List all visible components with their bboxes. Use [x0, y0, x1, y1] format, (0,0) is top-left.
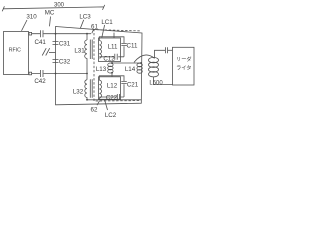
- svg-text:L12: L12: [107, 83, 118, 90]
- stub L12 bottom: [98, 98, 100, 100]
- stub L32 bottom to bottom wire: [86, 97, 88, 100]
- svg-text:L32: L32: [73, 89, 84, 96]
- leader MC: [50, 17, 51, 27]
- stub LC1 top to MC edge: [113, 33, 115, 38]
- wire L500 bottom: [154, 77, 173, 85]
- svg-text:LC3: LC3: [79, 14, 91, 21]
- leader LC3: [80, 20, 83, 28]
- capacitor C41: [41, 30, 44, 37]
- wire C22 row: [99, 96, 124, 98]
- inductor L12 secondary: [99, 80, 101, 98]
- svg-text:C41: C41: [35, 39, 47, 46]
- antenna coil L500: [149, 57, 159, 62]
- transformer L32 primary: [85, 80, 87, 98]
- junction dot W2/edge: [55, 73, 57, 75]
- stub L32 top from W2: [86, 74, 88, 80]
- svg-text:RFIC: RFIC: [9, 48, 21, 54]
- capacitor C21: [121, 82, 127, 84]
- core lines bottom transformer: [90, 79, 92, 98]
- svg-text:L13: L13: [96, 66, 107, 73]
- svg-text:C42: C42: [34, 78, 46, 85]
- wire L13 column: [111, 62, 113, 77]
- LC3 dashed box: [94, 30, 140, 101]
- reader/writer box: [173, 47, 195, 85]
- svg-text:LC1: LC1: [101, 19, 113, 26]
- stub L31 top to W1: [86, 34, 88, 40]
- svg-text:MC: MC: [45, 10, 55, 17]
- connector L31 bottom to W2: [86, 58, 88, 73]
- RFIC U310 box: [4, 32, 29, 75]
- ground: [42, 48, 50, 55]
- wire W2 bottom: [32, 73, 87, 75]
- svg-text:L500: L500: [149, 80, 163, 86]
- capacitor C500: [165, 47, 167, 53]
- capacitor C32 on MC left edge: [53, 59, 59, 62]
- svg-text:C31: C31: [59, 41, 71, 48]
- wire L12 top to C21: [99, 76, 124, 81]
- svg-text:LC2: LC2: [105, 112, 117, 119]
- wire antenna node up: [155, 50, 166, 58]
- wire L11 top to C11: [99, 37, 124, 43]
- LC2 box: [99, 77, 121, 100]
- capacitor C31 on MC left edge: [53, 42, 59, 45]
- svg-text:C32: C32: [59, 58, 71, 65]
- wire C11 down: [123, 46, 125, 57]
- leader LC1: [102, 25, 105, 38]
- capacitor C12: [115, 54, 117, 60]
- svg-text:ライタ: ライタ: [176, 63, 191, 71]
- inductor L11 secondary: [99, 41, 101, 59]
- inductor L13: [108, 63, 113, 67]
- dimension 300 bracket: [2, 5, 105, 11]
- svg-text:310: 310: [26, 13, 37, 20]
- svg-text:300: 300: [54, 2, 65, 8]
- svg-text:L11: L11: [108, 44, 118, 51]
- svg-text:62: 62: [91, 107, 98, 114]
- capacitor C22: [117, 94, 119, 100]
- svg-text:C21: C21: [127, 81, 139, 88]
- ground stub: [49, 52, 56, 54]
- leader LC2: [105, 100, 108, 111]
- svg-text:C11: C11: [127, 43, 138, 50]
- capacitor C42: [41, 70, 44, 77]
- svg-text:L14: L14: [125, 66, 136, 73]
- MC box (skewed as in scan): [56, 27, 143, 105]
- svg-text:C22: C22: [106, 95, 118, 102]
- core lines top transformer: [90, 40, 92, 60]
- wire cap to reader box: [168, 49, 173, 51]
- capacitor C11: [121, 44, 127, 46]
- leader 61: [92, 29, 94, 33]
- junction dot W1/edge: [55, 33, 57, 35]
- transformer L31 primary: [85, 40, 87, 58]
- terminal top of RFIC: [29, 32, 32, 35]
- bottom wire: [87, 99, 141, 101]
- wire W1 top: [32, 33, 91, 35]
- terminal bottom of RFIC: [29, 72, 32, 75]
- svg-text:リーダ: リーダ: [176, 55, 192, 63]
- LC1 box: [99, 38, 121, 62]
- leader 62: [97, 101, 100, 105]
- leader 310: [22, 20, 28, 31]
- coupling arc wire: [134, 55, 155, 62]
- middle wire: [112, 62, 141, 64]
- inductor L14 on right edge: [137, 63, 142, 67]
- wire C21 down: [123, 84, 125, 97]
- wire C12 row: [99, 56, 124, 58]
- svg-text:C12: C12: [103, 56, 115, 63]
- svg-text:L31: L31: [74, 48, 85, 55]
